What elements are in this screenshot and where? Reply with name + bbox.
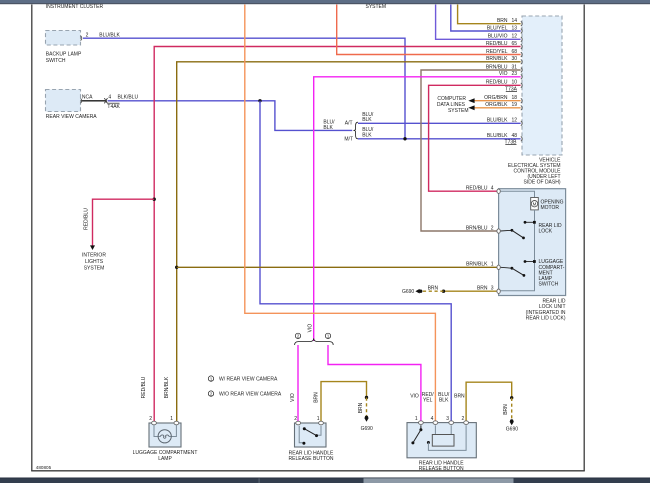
svg-text:RED/BLU: RED/BLU — [466, 186, 488, 192]
wire BRN/BLK branch to rear lid lock unit pin 1 — [177, 266, 498, 268]
rear lid lock switch — [501, 221, 562, 239]
wire ORG/BLK module pin 19 arrow to computer data lines — [468, 105, 520, 110]
svg-text:BRN/BLU: BRN/BLU — [466, 225, 488, 231]
lock unit pin labels — [466, 186, 494, 292]
bottom status bar — [0, 478, 650, 483]
brace A/T, M/T split — [323, 119, 358, 142]
svg-text:G690: G690 — [506, 427, 518, 433]
svg-text:SYSTEM: SYSTEM — [448, 108, 469, 114]
wire NCA black from rear view camera to in-line connector T4AK — [81, 94, 106, 100]
svg-text:48: 48 — [512, 133, 518, 139]
svg-text:30: 30 — [512, 56, 518, 62]
svg-text:LAMP: LAMP — [158, 456, 172, 462]
svg-text:BACKUP LAMP: BACKUP LAMP — [46, 52, 82, 58]
svg-text:M: M — [533, 201, 537, 206]
rear view camera (dashed box) — [46, 90, 98, 121]
svg-text:RED/BLU: RED/BLU — [84, 208, 90, 230]
svg-text:YEL: YEL — [423, 397, 433, 403]
svg-text:14: 14 — [512, 18, 518, 24]
note 1: W/ REAR VIEW CAMERA — [208, 376, 278, 383]
svg-text:BRN: BRN — [503, 404, 509, 415]
svg-text:12: 12 — [512, 117, 518, 123]
svg-text:4: 4 — [431, 416, 434, 422]
svg-text:19: 19 — [512, 102, 518, 108]
wire BRN/BLU module pin 31 to rear lid lock unit pin 2 — [421, 70, 521, 231]
wire BLU/YEL to module pin 13 — [451, 5, 521, 32]
svg-text:68: 68 — [512, 49, 518, 55]
module pin connectors (arcs) — [521, 21, 522, 141]
svg-text:3: 3 — [446, 416, 449, 422]
lock unit internal ground bus to pin 3 — [501, 210, 535, 291]
svg-text:1: 1 — [170, 416, 173, 422]
svg-text:2: 2 — [149, 416, 152, 422]
svg-text:4: 4 — [108, 94, 111, 100]
svg-text:VIO: VIO — [410, 393, 419, 399]
svg-text:INSTRUMENT CLUSTER: INSTRUMENT CLUSTER — [46, 4, 104, 10]
vehicle electrical system control module (dashed box) — [508, 16, 562, 186]
wire BRN big release button pin 2 to ground G690 — [466, 382, 513, 422]
svg-text:SYSTEM: SYSTEM — [84, 265, 105, 271]
svg-text:BLU/YEL: BLU/YEL — [487, 25, 508, 31]
ground G690 below small release button wire — [361, 416, 373, 432]
wire VIO option 1 to big release button pin 1 — [328, 345, 421, 422]
svg-text:3: 3 — [491, 286, 494, 292]
svg-text:LIGHTS: LIGHTS — [85, 259, 104, 265]
svg-text:ORG/BRN: ORG/BRN — [484, 95, 508, 101]
lock unit pin connectors — [497, 189, 500, 293]
svg-text:G690: G690 — [402, 289, 414, 295]
svg-text:BLK: BLK — [439, 397, 449, 403]
svg-text:BLK: BLK — [362, 117, 372, 123]
svg-text:RED/YEL: RED/YEL — [486, 49, 508, 55]
wire BLU/BLK from backup lamp switch pin 2 to M/T junction — [83, 33, 405, 139]
wire RED/YEL to module pin 68 — [337, 5, 521, 55]
wire ORG/BRN module pin 18 arrow to computer data lines — [468, 98, 520, 103]
svg-text:BRN/BLK: BRN/BLK — [164, 376, 170, 398]
svg-text:BRN: BRN — [477, 286, 488, 292]
wire BLU/BLK A/T to module pin 12 — [358, 112, 521, 124]
svg-text:SWITCH: SWITCH — [539, 282, 559, 288]
svg-text:BLK: BLK — [362, 133, 372, 139]
svg-text:2: 2 — [294, 416, 297, 422]
svg-text:NCA: NCA — [82, 94, 93, 100]
wire RED/BLU branch to interior lights system (arrow) — [82, 199, 154, 271]
svg-text:2: 2 — [491, 225, 494, 231]
svg-text:480805: 480805 — [36, 465, 52, 470]
wire RED/BLU module pin 65 down-left to luggage compartment lamp pin 2 — [154, 47, 520, 423]
svg-text:SYSTEM: SYSTEM — [366, 4, 387, 10]
svg-text:SIDE OF DASH): SIDE OF DASH) — [524, 180, 561, 186]
svg-text:BLU/BLK: BLU/BLK — [99, 33, 120, 39]
in-line connector T4AK pin 4 — [104, 94, 120, 110]
connector label T73B — [505, 140, 518, 146]
wire RED/BLU module pin 10 to rear lid lock unit pin 4 — [429, 85, 521, 191]
svg-text:12: 12 — [512, 34, 518, 40]
svg-text:BRN: BRN — [454, 393, 465, 399]
wire VIO option 2 to small release button pin 2 — [290, 345, 298, 422]
svg-text:LUGGAGE COMPARTMENT: LUGGAGE COMPARTMENT — [133, 450, 198, 456]
svg-text:BRN/BLK: BRN/BLK — [486, 56, 508, 62]
module pin labels — [484, 18, 517, 139]
wire BLU/BLK M/T to module pin 48 — [358, 127, 521, 139]
svg-text:BLU/BLK: BLU/BLK — [487, 117, 508, 123]
svg-text:LOCK: LOCK — [539, 229, 553, 235]
svg-text:10: 10 — [512, 80, 518, 86]
junction BRN/BLK branch to rear lid lock unit — [175, 266, 178, 269]
svg-text:BRN/BLK: BRN/BLK — [466, 262, 488, 268]
svg-text:4: 4 — [491, 186, 494, 192]
ground G690 (left arrow) at rear lid lock unit — [402, 289, 422, 295]
svg-text:MOTOR: MOTOR — [541, 205, 560, 211]
svg-text:RELEASE BUTTON: RELEASE BUTTON — [419, 466, 464, 472]
backup lamp switch (dashed box) — [46, 31, 82, 65]
svg-text:ORG/BLK: ORG/BLK — [485, 102, 508, 108]
svg-text:1: 1 — [415, 416, 418, 422]
svg-text:VIO: VIO — [499, 71, 508, 77]
svg-text:BRN/BLU: BRN/BLU — [486, 64, 508, 70]
svg-text:BRN: BRN — [358, 402, 364, 413]
svg-text:31: 31 — [512, 64, 518, 70]
svg-text:18: 18 — [512, 95, 518, 101]
wire VIO module pin 23 down to release buttons split — [314, 77, 521, 341]
svg-text:INTERIOR: INTERIOR — [82, 253, 106, 259]
wire BRN small release button pin 1 to ground G690 — [313, 382, 368, 423]
svg-text:SWITCH: SWITCH — [46, 58, 66, 64]
wire RED/YEL from top to big release button pin 4 — [245, 5, 436, 423]
junction on BLK/BLU wire — [258, 99, 261, 102]
svg-text:RELEASE BUTTON: RELEASE BUTTON — [289, 456, 334, 462]
rear lid handle release button (big, w/ camera) — [407, 392, 476, 472]
svg-text:VIO: VIO — [307, 324, 313, 333]
wire BRN/BLK module pin 30 down-left to luggage compartment lamp pin 1 — [177, 62, 521, 423]
note 2: W/O REAR VIEW CAMERA — [208, 391, 282, 398]
svg-text:BLU/VIO: BLU/VIO — [488, 34, 508, 40]
ground G690 below big release button wire — [506, 419, 518, 432]
wire BRN to module pin 14 — [458, 5, 521, 24]
svg-text:RED/BLU: RED/BLU — [141, 376, 147, 398]
rear lid lock unit (solid box) — [499, 189, 566, 322]
wire BRN rear lid lock unit pin 3 to ground G690 — [422, 286, 498, 293]
svg-text:BLU/BLK: BLU/BLK — [487, 133, 508, 139]
wire BLU/BLK branch down to rear lid handle release button pin 3 — [260, 101, 451, 423]
top toolbar bar — [0, 0, 650, 4]
rear lid handle release button (small, w/o camera) — [289, 416, 334, 462]
svg-text:W/O REAR VIEW CAMERA: W/O REAR VIEW CAMERA — [219, 392, 282, 398]
svg-text:REAR VIEW CAMERA: REAR VIEW CAMERA — [46, 114, 98, 120]
connector label T73A — [505, 87, 518, 93]
svg-text:BRN: BRN — [497, 18, 508, 24]
luggage compartment lamp — [133, 376, 198, 462]
svg-text:BRN: BRN — [313, 392, 319, 403]
svg-text:BLK: BLK — [323, 125, 333, 131]
opening motor M — [501, 191, 564, 211]
luggage compartment lamp switch (in lock unit) — [501, 259, 565, 287]
svg-text:T4AK: T4AK — [107, 104, 120, 110]
svg-text:REAR LID LOCK): REAR LID LOCK) — [526, 315, 566, 321]
svg-text:W/ REAR VIEW CAMERA: W/ REAR VIEW CAMERA — [219, 377, 278, 383]
svg-text:M/T: M/T — [344, 137, 353, 143]
svg-text:A/T: A/T — [345, 120, 353, 126]
junction M/T line with backup lamp switch wire — [403, 137, 406, 140]
svg-text:2: 2 — [86, 33, 89, 39]
svg-text:23: 23 — [512, 71, 518, 77]
brace VIO split with options 2 and 1 — [295, 333, 334, 345]
svg-text:65: 65 — [512, 41, 518, 47]
wire BLU/VIO to module pin 12 — [436, 5, 521, 40]
svg-text:RED/BLU: RED/BLU — [486, 41, 508, 47]
node: COMPUTER DATA LINES SYSTEM — [437, 96, 469, 114]
svg-text:2: 2 — [462, 416, 465, 422]
svg-text:RED/BLU: RED/BLU — [486, 80, 508, 86]
svg-text:1: 1 — [317, 416, 320, 422]
svg-text:13: 13 — [512, 25, 518, 31]
wire BLK/BLU from T4AK to junction and A/T-M/T brace — [108, 94, 353, 130]
junction RED/BLU interior lights branch — [153, 198, 156, 201]
svg-text:BRN: BRN — [428, 286, 439, 292]
svg-text:VIO: VIO — [290, 393, 296, 402]
svg-text:1: 1 — [491, 262, 494, 268]
svg-text:BLK/BLU: BLK/BLU — [118, 94, 139, 100]
svg-text:G690: G690 — [361, 426, 373, 432]
